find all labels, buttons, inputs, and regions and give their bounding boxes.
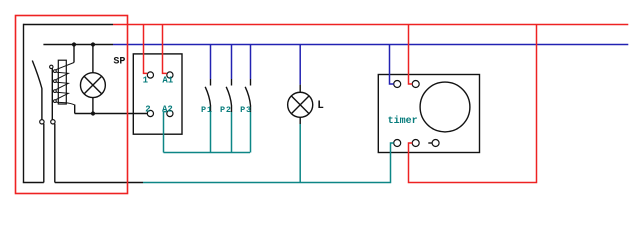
lamp L circle xyxy=(288,92,313,117)
switch SW1 blade xyxy=(32,61,42,120)
switch SW1 terminal circle xyxy=(40,120,44,124)
wire lamp SP bottom lead xyxy=(92,98,94,114)
wire top bus black segment xyxy=(24,24,114,26)
wire left return edge xyxy=(23,24,25,183)
pushbutton P1 stub xyxy=(210,79,212,86)
terminal A2 circle xyxy=(167,110,173,116)
lamp SP circle xyxy=(80,73,105,98)
wire phase bus black segment xyxy=(43,44,113,46)
svg-text:P2: P2 xyxy=(220,105,232,115)
junction dot at lamp SP bottom xyxy=(91,111,95,115)
wire bottom left segment xyxy=(23,182,44,184)
wire P3 bottom drop xyxy=(250,112,252,153)
timer terminal bottom 3 tick xyxy=(428,142,432,144)
svg-text:SP: SP xyxy=(113,57,125,68)
pushbutton P2 blade xyxy=(226,87,231,112)
timer terminal bottom 3 xyxy=(432,140,439,147)
wire pushbutton rail xyxy=(164,152,251,154)
pushbutton P2 stub xyxy=(231,79,233,86)
wire red drop to timer top 2 xyxy=(409,25,413,85)
timer terminal top 2 xyxy=(412,81,419,88)
wire phase top bus red xyxy=(113,24,628,26)
timer terminal bottom 2 xyxy=(412,140,419,147)
junction dot at lamp SP drop xyxy=(91,42,95,46)
pushbutton P1 blade xyxy=(205,87,210,112)
timer terminal top 1 xyxy=(394,81,401,88)
svg-text:timer: timer xyxy=(388,115,418,127)
wire lamp L bottom drop xyxy=(299,124,301,183)
timer dial circle xyxy=(420,82,470,132)
svg-text:2: 2 xyxy=(145,105,150,115)
wire red return loop right xyxy=(409,25,537,183)
wire A2 drop xyxy=(164,112,167,153)
svg-text:1: 1 xyxy=(143,76,149,86)
enclosure outline red xyxy=(16,16,128,194)
wire lamp L top lead black xyxy=(299,85,301,93)
wire coil top drop xyxy=(73,45,75,63)
terminal A1 circle xyxy=(167,72,173,78)
wire red drop to terminal A1 xyxy=(163,25,167,74)
wire coil bottom lead xyxy=(74,105,76,114)
relay coil K1 winding curls xyxy=(54,70,57,73)
junction dot at coil drop xyxy=(72,42,76,46)
svg-text:L: L xyxy=(317,100,324,112)
pushbutton P3 blade xyxy=(245,87,250,112)
wire lamp L bottom lead black xyxy=(299,117,301,124)
lamp L cross xyxy=(291,96,309,114)
timer terminal bottom 1 xyxy=(394,140,401,147)
switch SW1 second terminal circle xyxy=(51,120,55,124)
wire P1 bottom drop xyxy=(210,112,212,153)
wire coil left lead xyxy=(51,68,53,119)
wire neutral bus navy xyxy=(113,44,628,46)
wire P1 top drop xyxy=(210,45,212,80)
relay coil K1 body rectangle xyxy=(58,60,66,104)
wire lamp L top drop xyxy=(299,45,301,85)
wire lower stub right xyxy=(54,124,56,183)
wire P3 top drop xyxy=(250,45,252,80)
pushbutton P3 stub xyxy=(250,79,252,86)
wire bottom bus teal segment xyxy=(143,143,394,183)
relay coil K1 winding xyxy=(56,63,75,105)
svg-text:A1: A1 xyxy=(162,76,173,86)
wire switch lower stub xyxy=(43,124,45,183)
terminal 2 circle xyxy=(147,110,153,116)
lamp SP cross xyxy=(84,76,102,94)
relay coil K1 left hook xyxy=(50,65,53,68)
wire red drop to terminal 1 xyxy=(144,25,148,74)
wire P2 bottom drop xyxy=(231,112,233,153)
timer box U1 xyxy=(378,75,479,153)
wire timer blue drop xyxy=(390,45,394,85)
terminal 1 circle xyxy=(147,72,153,78)
wire mid black segment to terminal 2 xyxy=(75,113,148,115)
wire lamp SP top lead xyxy=(92,45,94,73)
contactor terminal box xyxy=(133,54,182,134)
wire P2 top drop xyxy=(231,45,233,80)
wire bottom bus black segment xyxy=(55,182,143,184)
